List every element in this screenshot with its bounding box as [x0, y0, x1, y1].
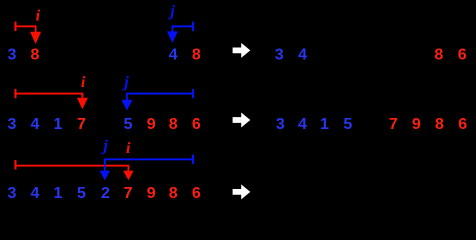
svg-text:5: 5: [343, 116, 352, 133]
row3 blue bracket right tick: [192, 155, 194, 164]
svg-text:4: 4: [30, 185, 39, 202]
row2 red pointer arrow shaft: [82, 93, 84, 98]
svg-text:7: 7: [77, 116, 86, 133]
svg-text:7: 7: [389, 116, 398, 133]
svg-text:3: 3: [275, 47, 284, 64]
svg-text:2: 2: [101, 185, 110, 202]
row2 blue bracket right tick: [192, 89, 194, 98]
row2 blue bracket hline: [126, 93, 194, 95]
svg-text:8: 8: [434, 47, 443, 64]
svg-text:6: 6: [458, 47, 467, 64]
row1 red pointer arrowhead: [30, 32, 41, 44]
svg-text:8: 8: [192, 47, 201, 64]
svg-text:1: 1: [320, 116, 329, 133]
svg-text:3: 3: [7, 116, 16, 133]
row3 red pointer arrowhead: [123, 171, 133, 180]
row2 blue pointer arrowhead: [121, 100, 132, 111]
svg-text:4: 4: [169, 47, 178, 64]
svg-text:i: i: [81, 74, 86, 91]
row1 blue bracket hline: [172, 25, 194, 27]
svg-text:8: 8: [169, 116, 178, 133]
svg-text:9: 9: [412, 116, 421, 133]
svg-text:i: i: [126, 140, 131, 157]
row2 white result arrow: [233, 113, 251, 128]
svg-text:1: 1: [54, 185, 63, 202]
row2 red bracket hline: [14, 93, 83, 95]
row2 blue pointer arrow shaft: [126, 93, 128, 100]
row2 red pointer arrowhead: [77, 98, 88, 110]
row3 blue pointer arrowhead: [100, 171, 110, 180]
row1 blue pointer arrow shaft: [172, 26, 174, 32]
svg-text:4: 4: [30, 116, 39, 133]
row3 blue pointer arrow shaft: [104, 159, 106, 171]
row3 blue bracket hline: [104, 158, 194, 160]
svg-text:6: 6: [458, 116, 467, 133]
svg-text:3: 3: [7, 185, 16, 202]
svg-text:8: 8: [435, 116, 444, 133]
svg-text:1: 1: [54, 116, 63, 133]
row1 red bracket left tick: [14, 22, 16, 31]
svg-text:6: 6: [192, 185, 201, 202]
svg-text:7: 7: [124, 185, 133, 202]
svg-text:9: 9: [147, 116, 156, 133]
row1 white result arrow: [233, 43, 251, 58]
row1 blue pointer arrowhead: [167, 31, 178, 43]
row1 red pointer arrow shaft: [35, 26, 37, 32]
svg-text:4: 4: [298, 116, 307, 133]
svg-text:3: 3: [276, 116, 285, 133]
svg-text:5: 5: [124, 116, 133, 133]
svg-text:5: 5: [77, 185, 86, 202]
svg-text:3: 3: [7, 47, 16, 64]
row3 white result arrow: [233, 184, 251, 199]
svg-text:i: i: [36, 7, 41, 24]
row2 red bracket left tick: [14, 89, 16, 98]
svg-text:6: 6: [192, 116, 201, 133]
row3 red bracket left tick: [14, 160, 16, 169]
svg-text:4: 4: [298, 47, 307, 64]
row3 red pointer arrow shaft: [128, 165, 130, 171]
svg-text:8: 8: [30, 47, 39, 64]
svg-text:8: 8: [169, 185, 178, 202]
row1 blue bracket right tick: [192, 22, 194, 31]
row3 red bracket hline: [14, 165, 129, 167]
svg-text:9: 9: [147, 185, 156, 202]
row1 red bracket hline: [14, 25, 36, 27]
